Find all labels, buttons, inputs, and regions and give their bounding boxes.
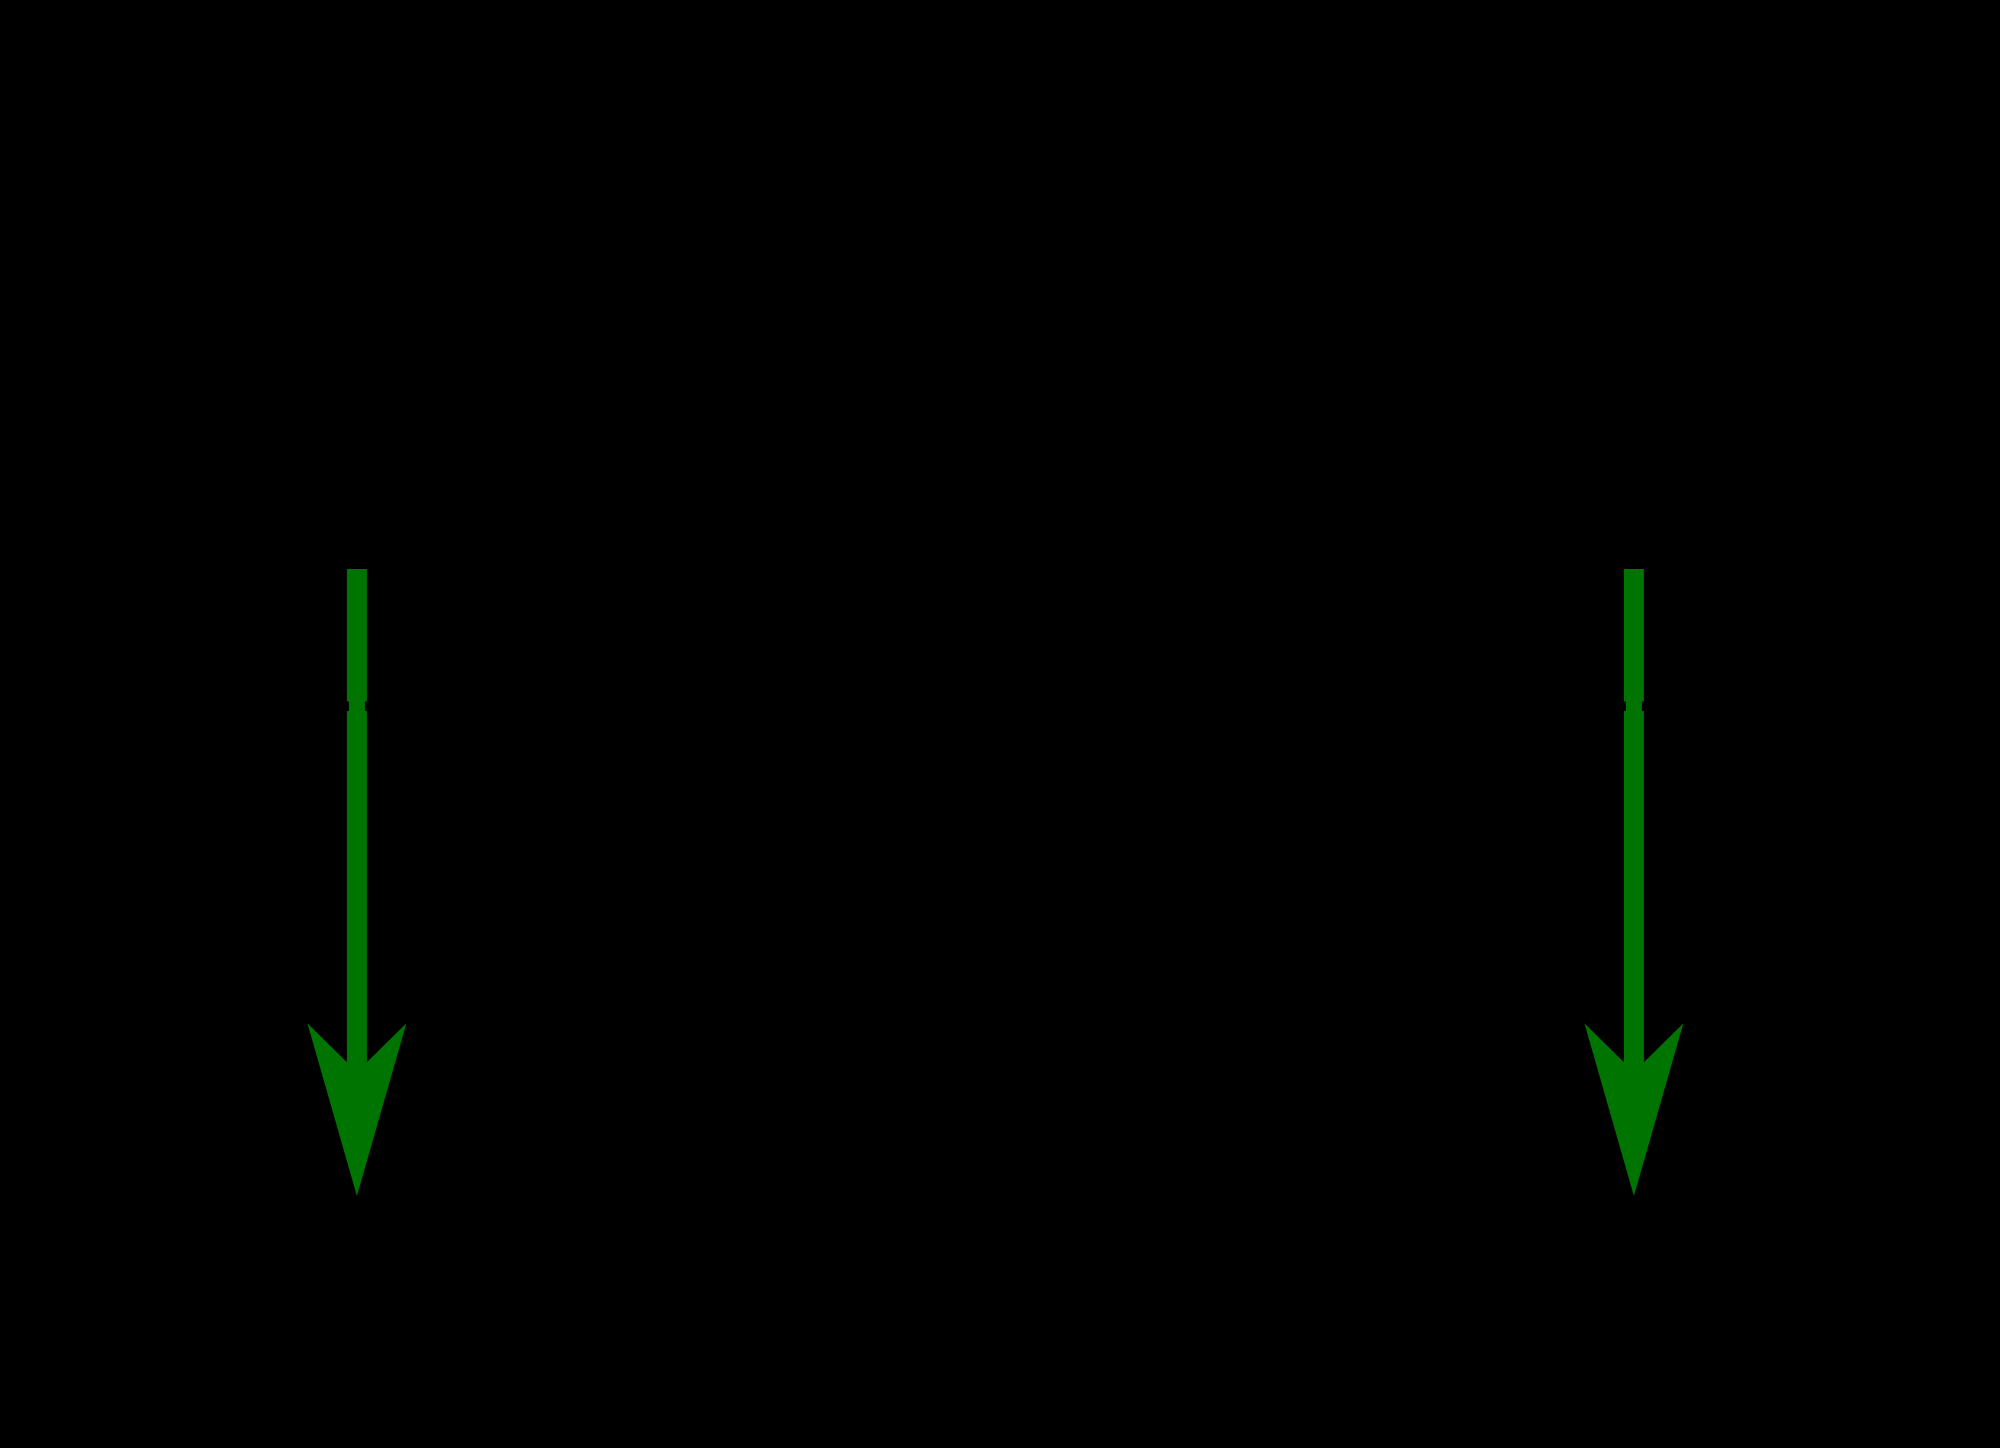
voltage arrow u1 (left, green, pointing down) [307,569,406,1196]
wire crossing notch on right arrow [1623,702,1644,712]
wire crossing notch on left arrow [346,702,367,712]
voltage arrow u2 (right, green, pointing down) [1584,569,1683,1196]
